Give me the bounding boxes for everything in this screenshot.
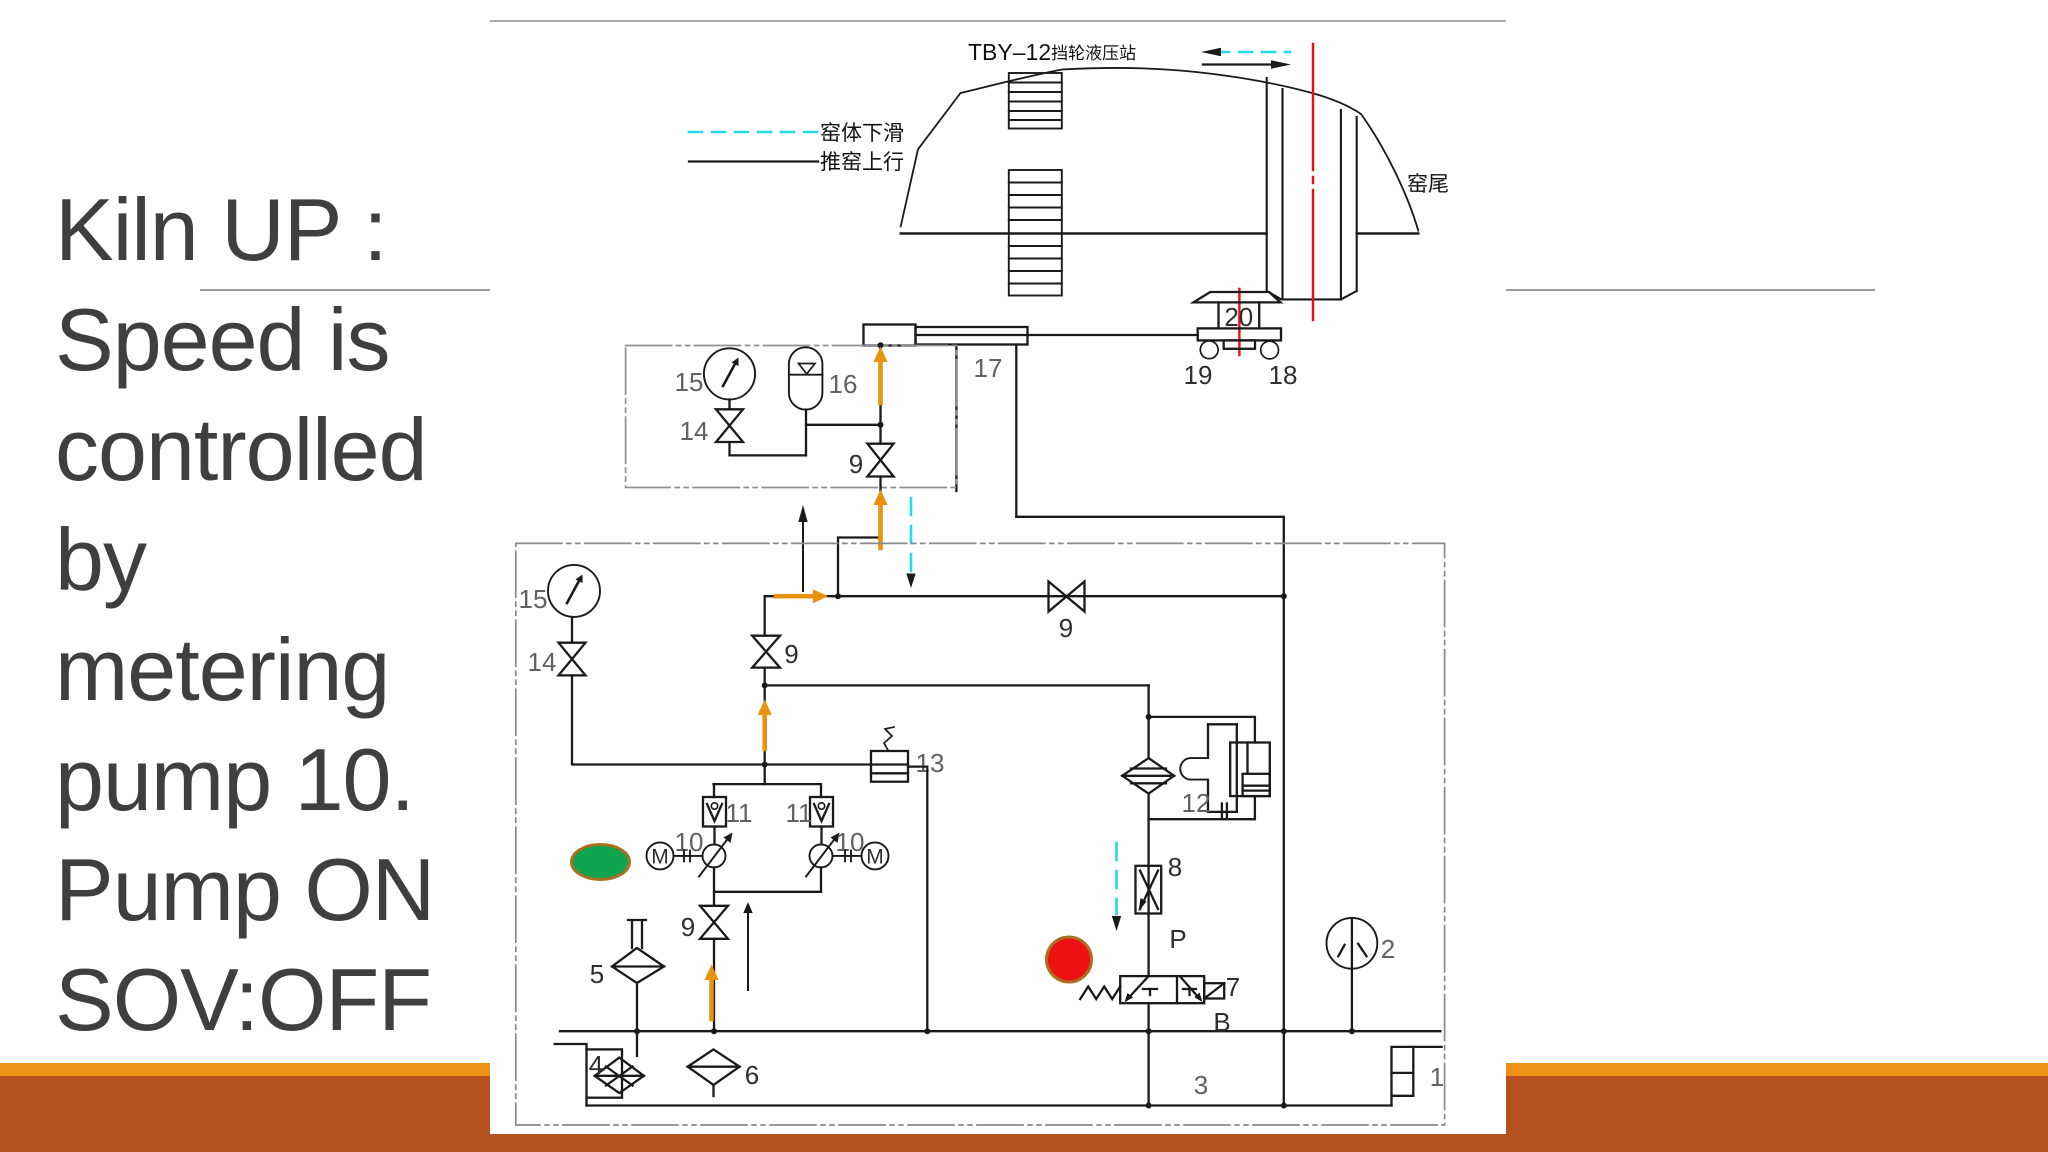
- svg-text:4: 4: [589, 1050, 603, 1080]
- support pedestal 17: [956, 345, 1016, 517]
- wire gauge15 to valve14: [728, 400, 730, 410]
- flow control valve 8: [1136, 866, 1162, 914]
- wire pump suction join: [714, 867, 821, 905]
- wire riser to pump manifold: [764, 685, 766, 784]
- carriage body: [1198, 328, 1281, 340]
- node cylinder feed: [878, 342, 884, 348]
- check filter 12: [1122, 758, 1174, 794]
- wire main riser upper: [879, 345, 881, 443]
- svg-text:TBY–12挡轮液压站: TBY–12挡轮液压站: [968, 39, 1136, 65]
- valve 7 solenoid: [1204, 983, 1224, 998]
- solenoid valve 7 body: [1120, 976, 1204, 1003]
- svg-text:9: 9: [1059, 613, 1073, 643]
- metering pump 10 (left): [699, 833, 733, 877]
- tank rail wire: [560, 1030, 1440, 1032]
- wire branch to jack circuit: [765, 684, 1149, 686]
- wire gauge2 to rail: [1351, 969, 1353, 1031]
- kiln shell outline: [901, 68, 1419, 231]
- node rail-relief return: [924, 1028, 930, 1034]
- valve 9 (sub-panel): [867, 444, 893, 477]
- flow arrow orange right (into header): [776, 589, 828, 603]
- svg-text:2: 2: [1381, 934, 1395, 964]
- svg-text:19: 19: [1184, 360, 1213, 390]
- thrust device 20 box: [1219, 302, 1260, 328]
- kiln axis line: [901, 232, 1419, 234]
- flow arrow black up (push-up flow): [798, 505, 807, 591]
- white schematic image area: [490, 14, 1506, 1134]
- node tank-valve7 return: [1146, 1103, 1152, 1109]
- check valve 11 (right): [810, 797, 833, 827]
- flow arrow orange up (pump discharge): [758, 700, 772, 750]
- svg-text:12: 12: [1182, 788, 1211, 818]
- node header right: [1281, 593, 1287, 599]
- valve 14 (station): [559, 643, 586, 676]
- legend line kiln-body-slide (cyan dashed): [689, 131, 818, 134]
- decorative line left segment: [200, 289, 490, 291]
- wire cylinder to right return: [1016, 517, 1284, 1031]
- decorative line right segment: [1505, 289, 1875, 291]
- accumulator sub-panel box: [626, 346, 957, 488]
- suction filter 4: [555, 1044, 644, 1106]
- bottom dark orange band: [0, 1076, 2048, 1152]
- wire manifold drops: [714, 784, 821, 797]
- valve 9 (suction): [700, 906, 728, 939]
- svg-text:M: M: [651, 846, 669, 869]
- svg-text:14: 14: [680, 416, 709, 446]
- jack cylinder body: [1230, 743, 1270, 797]
- piston rod wire: [1028, 334, 1198, 336]
- legend line kiln-push-up (black): [689, 160, 818, 162]
- jack drain ticks: [1222, 804, 1227, 819]
- valve 7 spring: [1080, 987, 1120, 1000]
- wire accumulator leg: [805, 410, 807, 456]
- arrow kiln-slide (cyan dashed, left): [1201, 48, 1290, 56]
- motor M (left): [647, 842, 703, 869]
- wire right return to tank: [1283, 1031, 1285, 1105]
- valve 9 (header, horizontal): [1049, 582, 1085, 612]
- node jog to header: [835, 593, 841, 599]
- valve 9 (pump riser): [752, 636, 780, 668]
- red centerline tall: [1312, 44, 1314, 320]
- node branch tee: [762, 682, 768, 688]
- svg-text:P: P: [1169, 924, 1186, 954]
- green status ellipse: [572, 845, 630, 880]
- flow arrow orange up (suction): [704, 965, 718, 1020]
- svg-text:14: 14: [528, 647, 557, 677]
- svg-text:9: 9: [681, 912, 695, 942]
- svg-text:17: 17: [974, 353, 1003, 383]
- wire check to pump (right): [820, 827, 822, 845]
- svg-text:8: 8: [1168, 852, 1182, 882]
- slide title text: [55, 175, 434, 1055]
- wire relief 13 to tank rail: [908, 767, 927, 1032]
- wire valve7 to tank: [1147, 1003, 1149, 1105]
- wire valve14 down and across to relief 13: [572, 675, 871, 764]
- gauge 15 (station): [548, 565, 600, 617]
- wire filter12 to valve8: [1147, 794, 1149, 866]
- kiln tyre bands: [1267, 78, 1357, 299]
- metering pump 10 (right): [806, 833, 840, 877]
- node rail-valve7: [1146, 1028, 1152, 1034]
- header pipe wire: [765, 595, 1284, 597]
- svg-text:9: 9: [849, 449, 863, 479]
- accumulator 16: [789, 347, 823, 409]
- relief valve 13: [871, 727, 908, 782]
- node tank-right return: [1281, 1103, 1287, 1109]
- girth gear lower: [1009, 170, 1062, 296]
- svg-text:推窑上行: 推窑上行: [820, 151, 904, 174]
- wire breather to rail: [636, 983, 638, 1056]
- schematic image top border: [490, 20, 1506, 22]
- gauge 2: [1327, 918, 1378, 969]
- wire valve14 to accumulator leg: [730, 442, 807, 455]
- tank bottom wire: [587, 1104, 1392, 1106]
- wire valve8 to valve7: [1147, 914, 1149, 977]
- flow arrow cyan down (to valve 7): [1112, 843, 1121, 931]
- gauge 15 (upper): [704, 348, 755, 399]
- carriage under-box: [1224, 340, 1255, 348]
- level indicator 1: [1392, 1047, 1442, 1106]
- node rail-breather: [634, 1028, 640, 1034]
- bottom light orange band: [0, 1063, 2048, 1076]
- wheel 19: [1200, 341, 1218, 359]
- node rail-gauge2: [1349, 1028, 1355, 1034]
- red status circle: [1047, 937, 1092, 982]
- svg-text:10: 10: [836, 827, 865, 857]
- node main-accumulator: [878, 422, 884, 428]
- wire suction valve to rail: [713, 939, 715, 1031]
- svg-text:11: 11: [726, 798, 753, 828]
- arrow kiln-push (black, right): [1203, 60, 1291, 68]
- svg-text:15: 15: [675, 367, 704, 397]
- svg-text:16: 16: [829, 369, 858, 399]
- valve 14 (upper): [716, 409, 743, 442]
- node rail-right return: [1281, 1028, 1287, 1034]
- node rail-suction: [711, 1028, 717, 1034]
- hydraulic station enclosure: [516, 543, 1445, 1125]
- flow arrow black up (near pump): [743, 902, 752, 990]
- svg-text:B: B: [1213, 1007, 1230, 1037]
- cylinder 17 cap: [864, 325, 916, 346]
- thrust roller cap (trapezoid): [1194, 292, 1281, 302]
- svg-text:窑尾: 窑尾: [1407, 173, 1449, 196]
- jack rod eye arc: [1180, 758, 1208, 780]
- svg-text:1: 1: [1430, 1062, 1444, 1092]
- wire gauge to valve 14: [571, 617, 573, 643]
- svg-text:3: 3: [1194, 1070, 1208, 1100]
- girth gear upper: [1009, 73, 1062, 129]
- svg-text:5: 5: [590, 959, 604, 989]
- wire riser valve to branch node: [764, 668, 766, 686]
- check valve 11 (left): [703, 797, 726, 827]
- svg-text:7: 7: [1226, 972, 1240, 1002]
- wire check to pump (left): [713, 827, 715, 845]
- wire accumulator tee to main: [806, 424, 881, 426]
- motor M (right): [833, 842, 889, 869]
- svg-text:6: 6: [745, 1060, 759, 1090]
- flow arrow orange up (to cylinder): [873, 347, 887, 403]
- jack block outline: [1149, 717, 1255, 819]
- wire header left drop: [764, 596, 766, 636]
- wire valve9 down with jog: [838, 477, 881, 597]
- svg-text:11: 11: [786, 798, 813, 828]
- pump manifold wire: [714, 783, 820, 785]
- flow arrow cyan down (slide flow): [906, 498, 915, 588]
- wire jack branch drop: [1147, 685, 1149, 758]
- jack piston tee: [1208, 724, 1237, 812]
- svg-text:18: 18: [1269, 360, 1298, 390]
- cylinder 17 barrel: [916, 327, 1028, 345]
- svg-text:10: 10: [675, 827, 704, 857]
- svg-text:9: 9: [784, 639, 798, 669]
- wheel 18: [1261, 341, 1279, 359]
- suction filter 6: [688, 1049, 740, 1096]
- red centerline through item 20: [1238, 289, 1240, 355]
- node suction cross: [762, 762, 768, 768]
- svg-text:M: M: [866, 846, 884, 869]
- node jack tee: [1146, 714, 1152, 720]
- breather 5: [612, 920, 664, 983]
- svg-text:窑体下滑: 窑体下滑: [820, 122, 904, 145]
- svg-text:15: 15: [519, 584, 548, 614]
- svg-text:13: 13: [916, 748, 945, 778]
- flow arrow orange up (below sub-panel): [873, 490, 887, 549]
